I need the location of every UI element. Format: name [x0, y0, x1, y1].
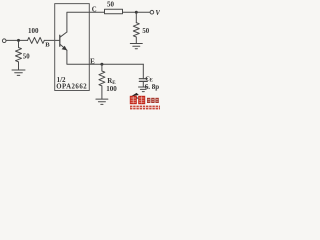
wire: collector up and right to node C	[67, 12, 105, 32]
svg-text:E: E	[90, 57, 95, 65]
svg-text:100: 100	[28, 27, 39, 35]
wire: emitter E run	[67, 50, 143, 64]
resistor 100 (base series)	[28, 37, 45, 43]
wire: input to resistor	[6, 39, 27, 41]
svg-text:50: 50	[107, 0, 115, 8]
resistor 50 (output series, box style)	[105, 9, 123, 14]
watermark	[130, 93, 160, 110]
svg-text:OPA2662: OPA2662	[56, 84, 87, 91]
svg-text:50: 50	[23, 53, 30, 60]
capacitor CE bottom lead	[142, 81, 144, 86]
input terminal	[2, 39, 6, 43]
svg-text:V: V	[155, 9, 160, 17]
svg-text:B: B	[45, 42, 50, 49]
op-amp U1 1/2 OPA2662 box	[55, 4, 90, 91]
resistor RE 100	[99, 64, 105, 99]
wire: resistor to output terminal	[123, 11, 151, 13]
wire: shunt to ground	[18, 63, 20, 70]
ground (input)	[12, 70, 25, 75]
ground (RE)	[96, 99, 108, 104]
capacitor CE: top lead	[142, 64, 144, 78]
transistor emitter arrow	[62, 46, 68, 51]
ground (CE)	[139, 87, 149, 92]
wire: output node down	[135, 13, 137, 23]
junction: output node	[135, 11, 138, 14]
output terminal	[150, 10, 154, 14]
svg-text:C: C	[92, 7, 97, 14]
transistor collector diagonal	[60, 32, 67, 37]
ground (load)	[130, 44, 142, 49]
svg-text:50: 50	[142, 28, 149, 35]
transistor Q (diamond transistor symbol): base bar	[59, 35, 61, 46]
svg-text:100: 100	[106, 85, 117, 93]
transistor emitter diagonal	[60, 44, 67, 50]
resistor 50 (load)	[133, 23, 139, 44]
resistor 50 (input shunt)	[16, 42, 22, 63]
junction: input node	[17, 39, 20, 42]
wire: resistor to base	[44, 39, 59, 41]
capacitor CE plates	[139, 79, 147, 82]
junction: emitter node	[100, 63, 103, 66]
